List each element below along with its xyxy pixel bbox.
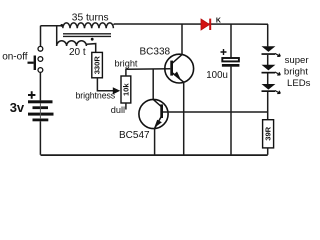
LED D4	[262, 84, 281, 94]
wire 39R to bottom rail	[267, 148, 269, 155]
transistor Q2 BC338	[165, 54, 194, 83]
wire secondary left leg from rail	[56, 26, 58, 46]
bottom rail 0v	[41, 154, 268, 156]
wire junction down to BC547 collector	[152, 69, 154, 99]
phase dot secondary	[91, 38, 94, 41]
wire BC338 emitter to bottom rail	[183, 82, 185, 155]
switch S1 on-off	[28, 46, 43, 72]
wire pot bottom stub	[125, 103, 127, 110]
svg-text:39R: 39R	[264, 126, 273, 140]
wire secondary to resistor 330R	[86, 44, 95, 53]
svg-text:100u: 100u	[206, 70, 228, 81]
transformer T1 primary 35 turns winding	[63, 23, 114, 28]
plus sign battery	[28, 91, 35, 98]
wire rail corner down to switch	[40, 26, 42, 47]
wire capacitor to bottom rail	[230, 67, 232, 155]
svg-text:dull: dull	[111, 105, 125, 115]
wire BC338 collector to rail	[181, 24, 183, 54]
resistor 39R	[263, 120, 274, 148]
svg-text:LEDs: LEDs	[287, 78, 311, 89]
LED D3	[262, 65, 281, 75]
svg-text:BC338: BC338	[140, 47, 171, 58]
potentiometer 10k	[121, 76, 131, 103]
battery B1 3v	[28, 100, 54, 121]
phase dot primary	[60, 24, 63, 27]
svg-text:10k: 10k	[121, 83, 130, 96]
wire BC547 base to LED/39R junction	[163, 111, 268, 113]
wire LED2-LED3	[267, 74, 269, 85]
wire pot top to BC338 base with junction to BC547 collector	[126, 69, 170, 76]
diode D1 (red)	[201, 19, 210, 30]
wire top rail right (coil end to LEDs corner)	[113, 23, 268, 26]
svg-text:super: super	[285, 55, 310, 66]
wire rail to capacitor	[230, 24, 232, 57]
svg-text:20 t: 20 t	[69, 47, 86, 58]
transformer T1 secondary 20 turns winding	[57, 41, 87, 46]
pot wiper arrow	[113, 87, 120, 94]
svg-text:35 turns: 35 turns	[72, 13, 109, 24]
wire LED1-LED2	[267, 55, 269, 65]
wire top rail left (battery+ to transformer)	[41, 25, 63, 27]
capacitor C1 100u	[222, 58, 239, 61]
svg-text:BC547: BC547	[119, 130, 150, 141]
svg-text:3v: 3v	[10, 100, 25, 115]
LED D2	[262, 46, 281, 56]
wire LED3 to 39R	[267, 92, 269, 120]
svg-text:on-off: on-off	[2, 52, 28, 63]
wire switch to battery	[39, 72, 41, 100]
svg-text:K: K	[216, 18, 221, 25]
plus sign capacitor	[221, 49, 227, 55]
transistor Q1 BC547 (mirrored)	[139, 99, 168, 128]
wire BC547 emitter to bottom rail	[154, 128, 156, 155]
wire battery to bottom rail	[39, 121, 41, 155]
svg-text:bright: bright	[284, 66, 308, 77]
svg-text:330R: 330R	[93, 56, 102, 75]
wire rail down to LED1	[267, 24, 269, 46]
wire 330R to pot wiper	[97, 78, 113, 91]
transformer core	[63, 33, 111, 35]
resistor 330R	[92, 52, 103, 77]
svg-text:brightness: brightness	[76, 91, 116, 101]
svg-text:bright: bright	[115, 59, 138, 69]
